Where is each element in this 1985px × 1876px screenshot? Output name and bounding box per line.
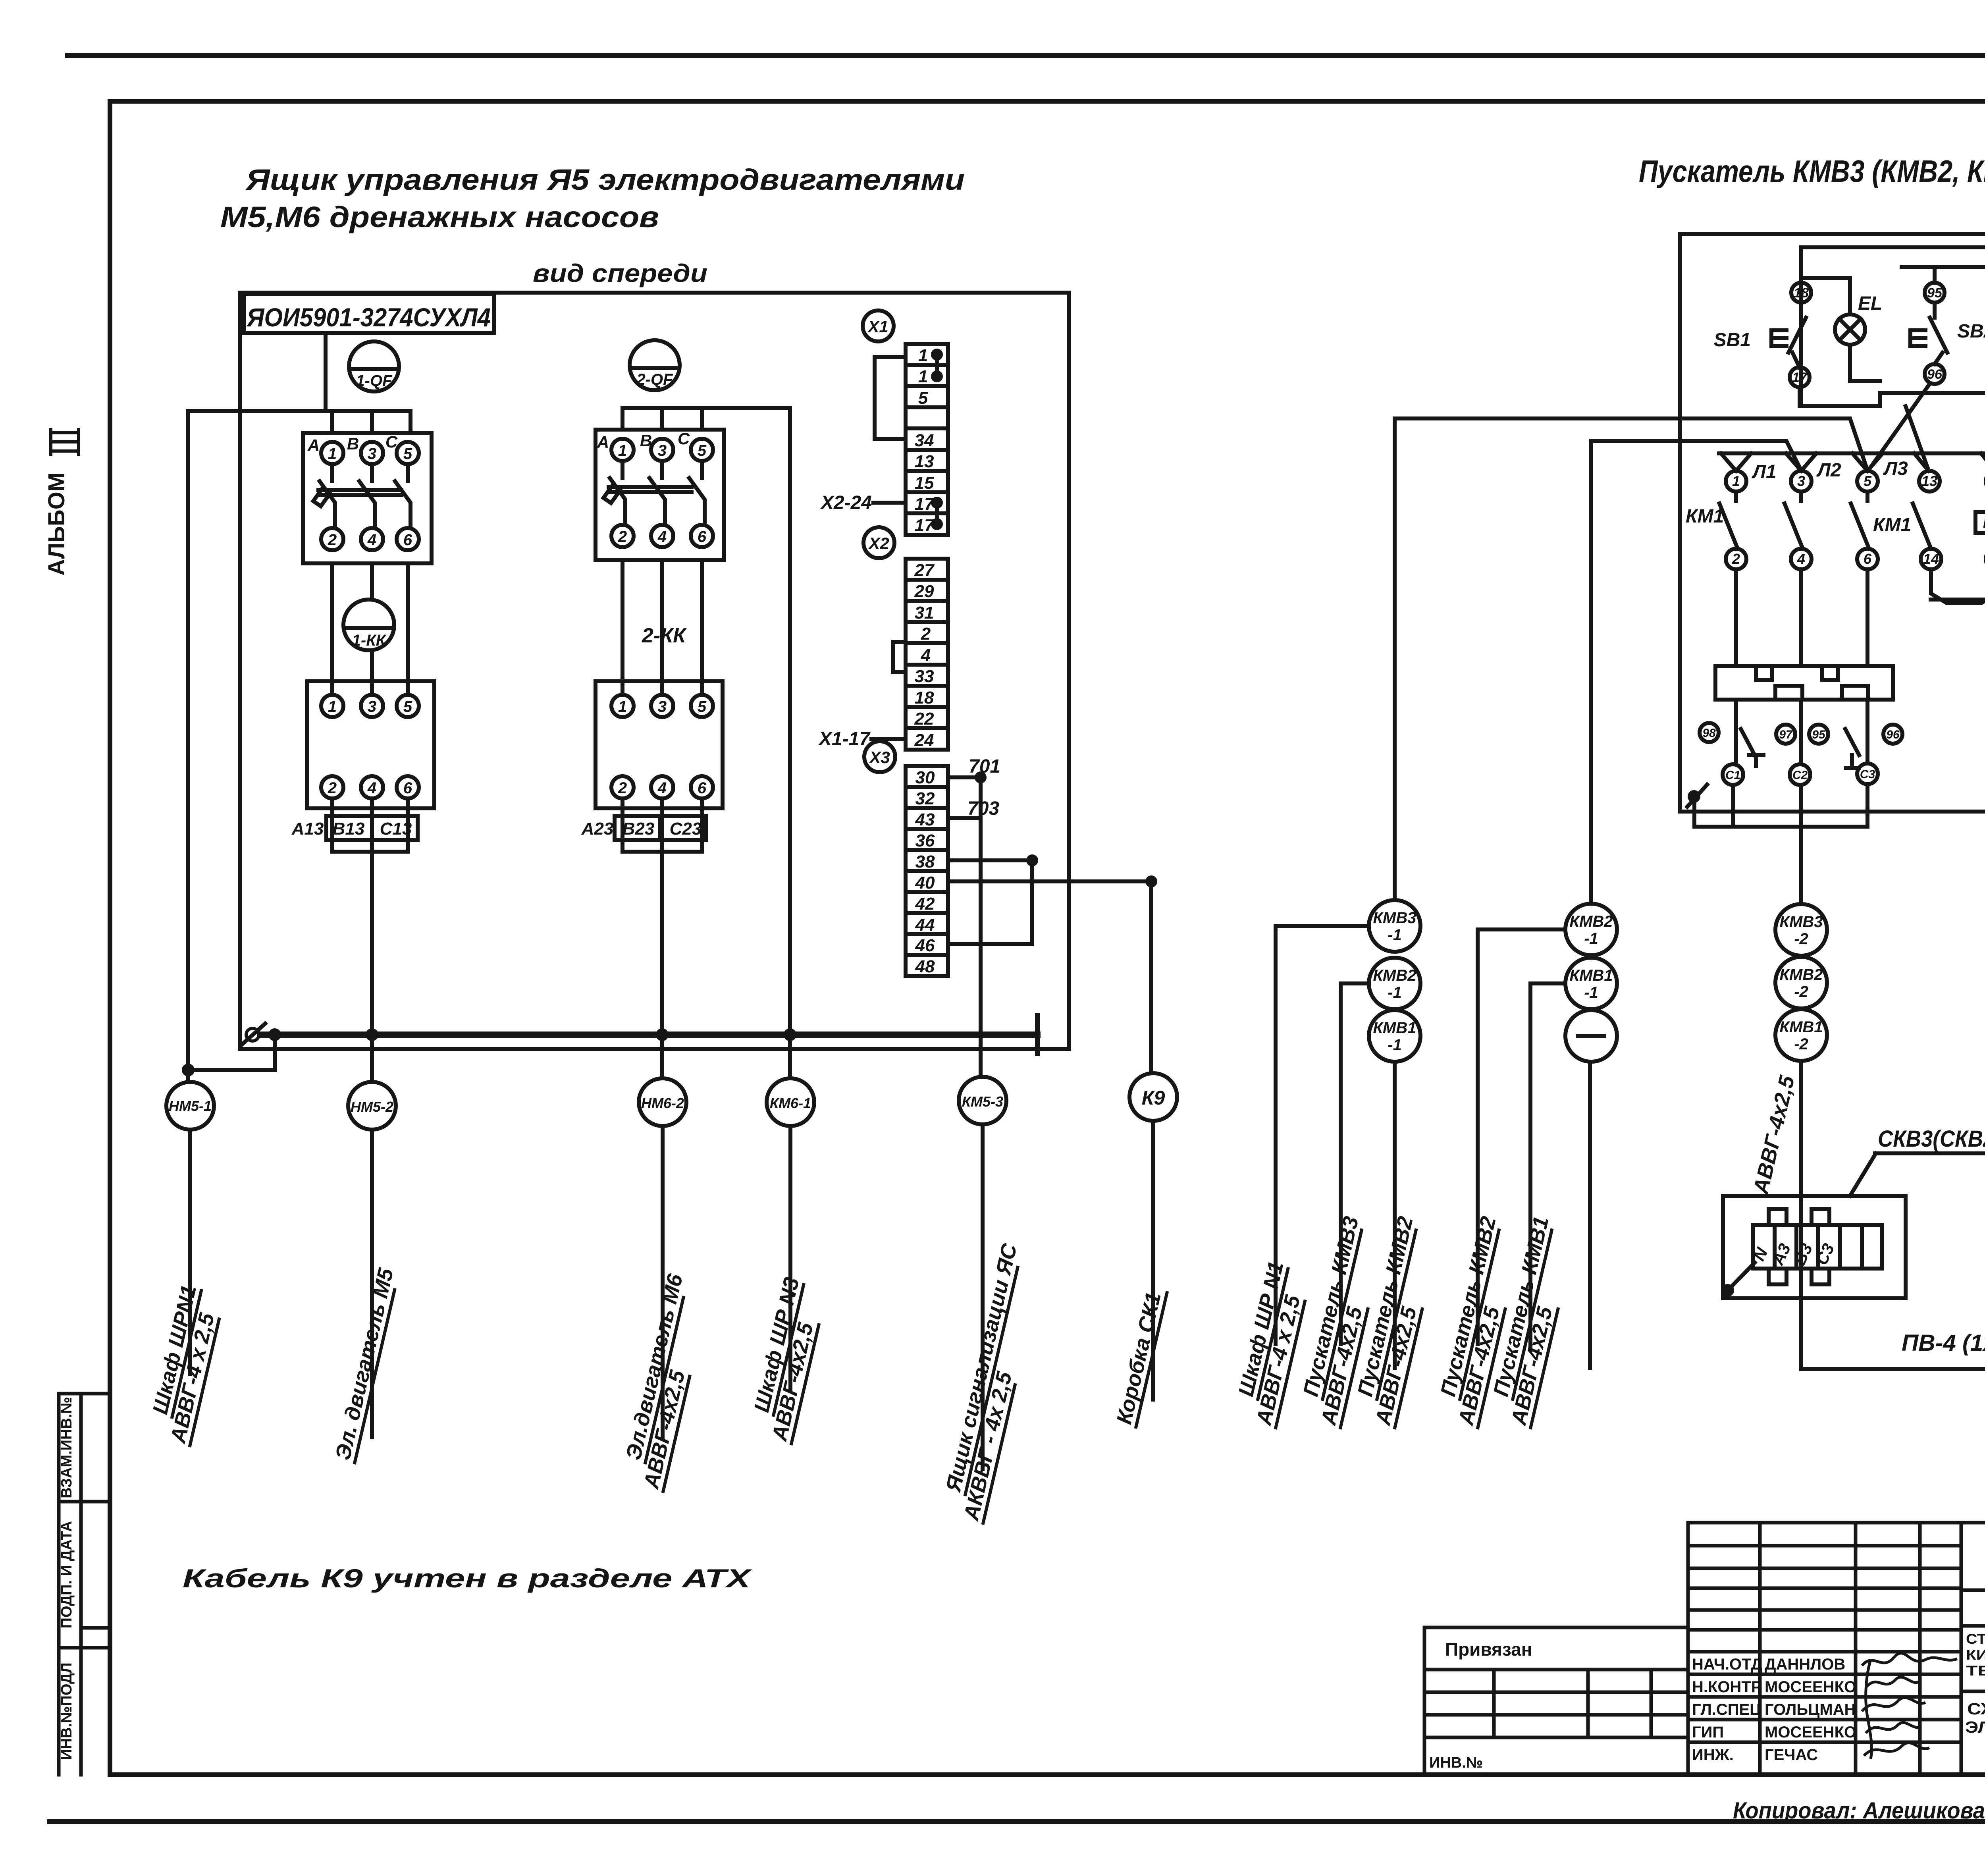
- svg-text:-2: -2: [1794, 1035, 1808, 1053]
- svg-text:6: 6: [698, 528, 707, 546]
- svg-text:24: 24: [914, 731, 934, 750]
- svg-text:В: В: [640, 431, 652, 450]
- svg-text:ГОЛЬЦМАН: ГОЛЬЦМАН: [1765, 1701, 1856, 1718]
- svg-text:М5,М6 дренажных насосов: М5,М6 дренажных насосов: [220, 201, 659, 233]
- svg-text:ГЛ.СПЕЦ: ГЛ.СПЕЦ: [1692, 1701, 1761, 1718]
- svg-text:-1: -1: [1388, 984, 1402, 1001]
- svg-text:С2: С2: [1792, 769, 1808, 782]
- svg-text:-1: -1: [1584, 930, 1598, 947]
- svg-text:ВЗАМ.ИНВ.№: ВЗАМ.ИНВ.№: [58, 1397, 75, 1498]
- svg-text:Пускатель КМВ3 (КМВ2, КМВ1): Пускатель КМВ3 (КМВ2, КМВ1): [1639, 154, 1985, 189]
- svg-text:ПВ-4 (1х1): ПВ-4 (1х1): [1902, 1330, 1985, 1356]
- svg-text:27: 27: [914, 561, 935, 580]
- svg-text:МОСЕЕНКО: МОСЕЕНКО: [1765, 1724, 1856, 1741]
- svg-text:КМВ1: КМВ1: [1373, 1019, 1416, 1037]
- svg-text:С: С: [678, 429, 690, 448]
- svg-text:5: 5: [918, 388, 928, 408]
- svg-text:2: 2: [618, 528, 627, 546]
- svg-text:32: 32: [915, 789, 935, 808]
- svg-text:А: А: [307, 436, 320, 455]
- svg-text:1-QF: 1-QF: [356, 372, 393, 389]
- svg-text:17: 17: [915, 494, 935, 514]
- svg-text:КМ1: КМ1: [1686, 506, 1724, 527]
- svg-text:13: 13: [915, 452, 934, 471]
- svg-text:Н.КОНТР: Н.КОНТР: [1692, 1678, 1762, 1696]
- svg-text:1: 1: [328, 698, 337, 715]
- svg-text:2: 2: [328, 531, 337, 549]
- svg-text:96: 96: [1927, 367, 1943, 382]
- svg-text:СКВ3(СКВ2,СКВ1): СКВ3(СКВ2,СКВ1): [1878, 1126, 1985, 1152]
- svg-text:2: 2: [1732, 551, 1740, 567]
- svg-text:КМ6-1: КМ6-1: [770, 1095, 811, 1111]
- svg-text:МОСЕЕНКО: МОСЕЕНКО: [1765, 1678, 1856, 1696]
- svg-text:5: 5: [1864, 473, 1872, 489]
- svg-text:КМВ2: КМВ2: [1569, 913, 1613, 930]
- svg-text:Кабель К9 учтен в разд: Кабель К9 учтен в разделе АТХ: [183, 1564, 752, 1593]
- svg-text:33: 33: [915, 667, 934, 686]
- svg-text:17: 17: [915, 516, 935, 535]
- svg-text:Л2: Л2: [1816, 460, 1841, 481]
- svg-text:5: 5: [698, 442, 707, 459]
- svg-text:3: 3: [368, 698, 376, 715]
- svg-text:3: 3: [368, 445, 376, 463]
- svg-text:4: 4: [921, 646, 931, 665]
- svg-text:38: 38: [915, 852, 935, 871]
- svg-text:Л3: Л3: [1883, 458, 1908, 479]
- svg-text:Копировал: Алешикова: Копировал: Алешикова: [1733, 1798, 1985, 1824]
- svg-text:2-QF: 2-QF: [636, 371, 673, 388]
- svg-text:А13: А13: [291, 819, 324, 839]
- svg-text:4: 4: [657, 779, 667, 797]
- svg-text:-2: -2: [1794, 983, 1808, 1001]
- svg-text:2-КК: 2-КК: [642, 624, 687, 647]
- svg-text:В: В: [347, 434, 359, 453]
- svg-text:Х3: Х3: [869, 748, 890, 767]
- svg-text:ДАННЛОВ: ДАННЛОВ: [1765, 1656, 1845, 1673]
- svg-text:С3: С3: [1860, 768, 1875, 781]
- svg-text:С13: С13: [380, 819, 412, 839]
- svg-text:6: 6: [1864, 551, 1872, 567]
- svg-text:Ящик управления Я5 электрод: Ящик управления Я5 электродвигателями: [245, 163, 965, 196]
- svg-text:НМ6-2: НМ6-2: [641, 1095, 684, 1111]
- svg-text:ЭЛЕКТРООБОРУДОВАНИЯ: ЭЛЕКТРООБОРУДОВАНИЯ: [1965, 1718, 1985, 1736]
- svg-text:40: 40: [915, 873, 935, 893]
- svg-text:1: 1: [1732, 473, 1740, 489]
- svg-text:46: 46: [915, 936, 935, 955]
- svg-text:С: С: [385, 432, 398, 451]
- svg-text:КМ1: КМ1: [1873, 515, 1911, 536]
- svg-text:А: А: [597, 433, 609, 451]
- svg-text:ГИП: ГИП: [1692, 1724, 1724, 1741]
- svg-text:ПОДП. И ДАТА: ПОДП. И ДАТА: [58, 1521, 75, 1629]
- svg-text:КМ5-3: КМ5-3: [962, 1093, 1003, 1110]
- svg-text:42: 42: [915, 894, 935, 914]
- svg-text:14: 14: [1923, 551, 1939, 567]
- svg-text:5: 5: [698, 698, 707, 715]
- svg-text:СХЕМА ПОДКЛЮЧЕНИЯ: СХЕМА ПОДКЛЮЧЕНИЯ: [1967, 1700, 1985, 1718]
- svg-text:А23: А23: [581, 819, 614, 839]
- svg-text:1: 1: [918, 367, 928, 386]
- svg-text:-2: -2: [1794, 930, 1808, 948]
- svg-text:ИНЖ.: ИНЖ.: [1692, 1746, 1734, 1764]
- svg-text:Привязан: Привязан: [1445, 1639, 1532, 1660]
- svg-text:-1: -1: [1388, 1036, 1402, 1054]
- svg-text:1: 1: [328, 445, 337, 463]
- svg-text:КМВ2: КМВ2: [1779, 966, 1823, 983]
- svg-text:КМВ1: КМВ1: [1569, 967, 1613, 984]
- svg-text:АЛЬБОМ: АЛЬБОМ: [44, 472, 69, 576]
- svg-text:22: 22: [914, 709, 934, 729]
- svg-text:В13: В13: [333, 819, 365, 839]
- svg-text:98: 98: [1702, 727, 1716, 740]
- svg-text:44: 44: [915, 915, 935, 935]
- svg-text:-1: -1: [1584, 984, 1598, 1001]
- svg-text:НМ5-1: НМ5-1: [169, 1098, 212, 1114]
- svg-text:1: 1: [618, 442, 627, 459]
- svg-text:НАЧ.ОТД: НАЧ.ОТД: [1692, 1656, 1762, 1673]
- svg-text:В23: В23: [622, 819, 655, 839]
- svg-text:ЯОИ5901-3274СУХЛ4: ЯОИ5901-3274СУХЛ4: [246, 303, 491, 332]
- svg-text:3: 3: [1797, 473, 1805, 489]
- svg-text:SB2: SB2: [1957, 321, 1985, 342]
- svg-text:КМВ1: КМВ1: [1779, 1018, 1823, 1036]
- svg-text:18: 18: [915, 688, 934, 708]
- svg-text:30: 30: [915, 768, 935, 787]
- svg-text:ИНВ.№: ИНВ.№: [1429, 1755, 1483, 1771]
- svg-text:6: 6: [403, 779, 412, 797]
- svg-text:701: 701: [969, 756, 1000, 777]
- svg-text:НМ5-2: НМ5-2: [351, 1099, 393, 1115]
- svg-text:29: 29: [914, 582, 934, 601]
- svg-text:2: 2: [328, 779, 337, 797]
- svg-text:95: 95: [1812, 728, 1826, 741]
- svg-text:SB1: SB1: [1714, 330, 1751, 351]
- svg-text:4: 4: [1797, 551, 1805, 567]
- svg-text:КМВ3: КМВ3: [1779, 913, 1823, 931]
- svg-text:5: 5: [403, 445, 412, 463]
- svg-text:18: 18: [1794, 285, 1809, 301]
- svg-text:КМВ3: КМВ3: [1373, 909, 1416, 927]
- svg-text:6: 6: [403, 531, 412, 549]
- svg-text:С23: С23: [670, 819, 702, 839]
- svg-text:СТАНЦИЯ БИОЛОГИЧЕСКОЙ ОЧИСТ-: СТАНЦИЯ БИОЛОГИЧЕСКОЙ ОЧИСТ-: [1966, 1631, 1985, 1647]
- svg-text:15: 15: [915, 473, 934, 493]
- svg-text:EL: EL: [1858, 293, 1882, 314]
- svg-text:1: 1: [918, 346, 928, 365]
- svg-text:2: 2: [618, 779, 627, 797]
- svg-text:4: 4: [367, 779, 376, 797]
- svg-text:ГЕЧАС: ГЕЧАС: [1765, 1746, 1818, 1764]
- svg-text:2: 2: [921, 624, 931, 644]
- svg-text:Х1-17: Х1-17: [818, 729, 871, 750]
- svg-text:36: 36: [915, 831, 935, 850]
- svg-text:95: 95: [1927, 285, 1943, 301]
- svg-text:ИНВ.№ПОДЛ: ИНВ.№ПОДЛ: [58, 1662, 75, 1760]
- svg-text:43: 43: [915, 810, 935, 829]
- svg-text:4: 4: [367, 531, 376, 549]
- svg-text:34: 34: [915, 431, 934, 450]
- svg-text:КИ СТОЧНЫХ ВОД ПРОИЗВОДИ-: КИ СТОЧНЫХ ВОД ПРОИЗВОДИ-: [1966, 1647, 1985, 1663]
- svg-text:Х1: Х1: [867, 317, 888, 336]
- svg-text:Х2-24: Х2-24: [820, 492, 872, 513]
- svg-text:703: 703: [967, 798, 999, 819]
- svg-text:КМ1: КМ1: [1983, 515, 1985, 531]
- svg-text:С1: С1: [1725, 769, 1740, 782]
- svg-text:1-КК: 1-КК: [352, 632, 387, 649]
- svg-text:вид спереди: вид спереди: [533, 259, 707, 287]
- svg-text:17: 17: [1792, 370, 1808, 385]
- svg-text:4: 4: [657, 528, 667, 546]
- svg-text:96: 96: [1886, 728, 1900, 741]
- svg-text:1: 1: [618, 698, 627, 715]
- svg-text:ТЕЛЬНОСТЬЮ 200 М3/СУТ.: ТЕЛЬНОСТЬЮ 200 М3/СУТ.: [1966, 1663, 1985, 1679]
- svg-text:97: 97: [1779, 728, 1793, 741]
- svg-text:6: 6: [698, 779, 707, 797]
- svg-text:3: 3: [658, 442, 667, 459]
- svg-text:КМВ2: КМВ2: [1373, 967, 1416, 984]
- svg-text:-1: -1: [1388, 926, 1402, 944]
- svg-text:48: 48: [915, 957, 935, 976]
- svg-text:3: 3: [658, 698, 667, 715]
- svg-text:Х2: Х2: [868, 534, 889, 553]
- svg-text:К9: К9: [1142, 1087, 1165, 1109]
- svg-text:5: 5: [403, 698, 412, 715]
- svg-text:31: 31: [915, 603, 934, 623]
- svg-text:13: 13: [1921, 473, 1937, 489]
- svg-text:Л1: Л1: [1752, 461, 1777, 482]
